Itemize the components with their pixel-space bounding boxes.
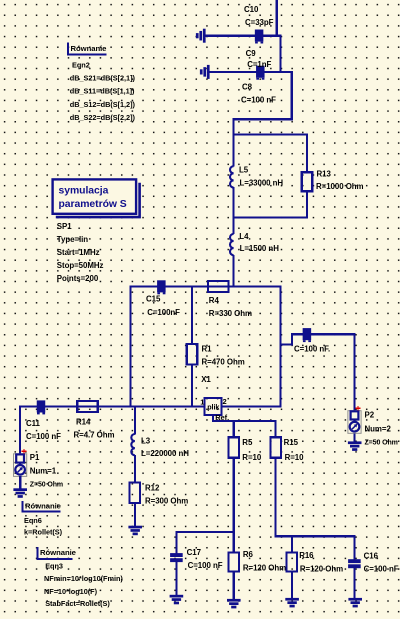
ground C16 <box>348 598 362 608</box>
wire R16 lower <box>291 571 293 599</box>
svg-text:C9: C9 <box>246 49 257 58</box>
resistor R15 <box>270 437 281 457</box>
wire P2 ground stem <box>354 433 356 442</box>
svg-text:C8: C8 <box>242 83 253 92</box>
ground (rotated left) at C10 <box>196 29 206 43</box>
wire tank left lower <box>233 187 235 218</box>
svg-text:L5: L5 <box>239 165 249 174</box>
wire junction horizontal right <box>275 535 356 537</box>
wire top rail <box>129 285 281 287</box>
svg-text:Points=200: Points=200 <box>57 274 99 283</box>
resistor R12 <box>130 483 141 503</box>
svg-text:C=100 nF: C=100 nF <box>26 432 61 441</box>
svg-text:C16: C16 <box>364 551 379 560</box>
wire collector vertical <box>280 285 282 407</box>
svg-text:C17: C17 <box>187 548 202 557</box>
wire C17 branch vertical <box>175 531 177 554</box>
svg-text:L=220000 nH: L=220000 nH <box>141 449 189 458</box>
inductor L3 <box>131 434 135 455</box>
subcircuit X1 SPfile box <box>205 398 222 415</box>
ground P2 <box>348 441 362 451</box>
svg-text:P2: P2 <box>365 411 375 420</box>
svg-text:R=120 Ohm: R=120 Ohm <box>300 564 343 573</box>
capacitor C10 <box>255 30 264 44</box>
equation Eqn3 bracket <box>37 547 72 559</box>
svg-text:L=1500 nH: L=1500 nH <box>240 244 280 253</box>
plus mark P2 <box>356 406 361 411</box>
ground R16 <box>285 598 299 608</box>
ground R12 <box>128 526 142 536</box>
svg-text:k=Rollet(S): k=Rollet(S) <box>24 527 63 536</box>
wire C16 upper <box>353 535 355 560</box>
svg-text:dB_S12=dB(S[1,2]): dB_S12=dB(S[1,2]) <box>70 100 136 109</box>
svg-text:2: 2 <box>223 397 227 406</box>
svg-text:StabFact=Rollet(S): StabFact=Rollet(S) <box>45 599 110 608</box>
svg-text:L3: L3 <box>141 437 151 446</box>
svg-text:R14: R14 <box>76 418 91 427</box>
wire C10 horizontal <box>205 35 282 37</box>
wire R12 lower <box>134 503 136 527</box>
svg-text:NFmin=10*log10(Fmin): NFmin=10*log10(Fmin) <box>44 574 123 583</box>
wire R1 lower <box>191 364 193 408</box>
svg-text:dB_S22=dB(S[2,2]): dB_S22=dB(S[2,2]) <box>70 113 136 122</box>
plus mark P1 <box>22 449 27 454</box>
svg-text:dB_S21=dB(S[2,1]): dB_S21=dB(S[2,1]) <box>70 74 136 83</box>
svg-text:L4: L4 <box>239 232 249 241</box>
wire R6 lower <box>233 571 235 600</box>
svg-text:Num=1: Num=1 <box>30 466 57 475</box>
svg-text:Równanie: Równanie <box>25 502 62 511</box>
wire vertical down right <box>291 71 293 121</box>
wire to P2 <box>353 333 355 411</box>
svg-text:SP1: SP1 <box>57 222 72 231</box>
wire tank left upper <box>233 133 235 166</box>
svg-text:Eqn3: Eqn3 <box>45 561 63 570</box>
wire emitter rail <box>212 420 277 422</box>
resistor R4 <box>208 281 229 292</box>
svg-text:Type=lin: Type=lin <box>57 235 88 244</box>
ground C17 <box>170 595 184 605</box>
svg-text:Równanie: Równanie <box>71 44 108 53</box>
wire L3-R12 <box>134 455 136 483</box>
wire tank right upper <box>306 133 308 172</box>
wire tank right lower <box>306 191 308 218</box>
wire C17 lower <box>175 561 177 596</box>
svg-text:C=100 nF: C=100 nF <box>364 564 399 573</box>
wire pin2 to collector <box>222 406 282 408</box>
resistor R1 <box>187 344 198 364</box>
wire R1 upper <box>191 285 193 344</box>
svg-text:C10: C10 <box>244 5 259 14</box>
svg-text:NF=10*log10(F): NF=10*log10(F) <box>44 587 98 596</box>
svg-text:parametrów S: parametrów S <box>59 199 127 210</box>
resistor R5 <box>228 437 239 457</box>
svg-text:Eqn2: Eqn2 <box>72 61 90 70</box>
resistor R16 <box>287 553 298 572</box>
svg-text:R=470 Ohm: R=470 Ohm <box>202 358 245 367</box>
equation Eqn2 bracket <box>68 43 106 55</box>
wire R5 branch upper <box>233 420 235 438</box>
wire jog to tank <box>233 118 235 136</box>
svg-text:R5: R5 <box>242 438 253 447</box>
svg-text:1: 1 <box>200 397 204 406</box>
svg-text:R=300 Ohm: R=300 Ohm <box>145 497 188 506</box>
wire output stub <box>280 343 294 345</box>
wire output jog <box>291 333 293 345</box>
svg-text:X1: X1 <box>201 375 211 384</box>
simulation box <box>53 179 137 213</box>
wire output horizontal <box>291 333 356 335</box>
resistor R6 <box>228 553 239 572</box>
wire R16 branch <box>291 535 293 553</box>
wire tank top <box>233 133 309 135</box>
svg-text:P1: P1 <box>30 453 40 462</box>
wire Ref stem <box>212 415 214 422</box>
svg-text:R13: R13 <box>317 170 332 179</box>
svg-text:R=120 Ohm: R=120 Ohm <box>243 564 286 573</box>
svg-text:R12: R12 <box>145 484 160 493</box>
port P1 <box>14 454 27 477</box>
wire C16 lower <box>353 567 355 599</box>
svg-text:Num=2: Num=2 <box>365 424 392 433</box>
svg-text:Z=50 Ohm: Z=50 Ohm <box>30 482 63 489</box>
wire C9 horizontal <box>209 71 293 73</box>
wire L4 upper <box>233 216 235 234</box>
wire L4 lower <box>233 255 235 288</box>
svg-text:C11: C11 <box>26 419 41 428</box>
svg-text:R1: R1 <box>202 345 213 354</box>
svg-text:R4: R4 <box>209 296 220 305</box>
wire P1 vertical <box>19 406 21 455</box>
ground (rotated left) at C9 <box>200 65 210 79</box>
svg-text:R=10: R=10 <box>242 453 262 462</box>
wire tank bottom <box>233 216 309 218</box>
svg-text:C=100 nF: C=100 nF <box>188 561 223 570</box>
wire L3 upper <box>134 406 136 435</box>
svg-text:plik: plik <box>207 402 219 411</box>
wire R5 to junction <box>233 457 235 552</box>
svg-text:R=330 Ohm: R=330 Ohm <box>209 309 252 318</box>
port P2 <box>348 411 361 434</box>
ground R6 <box>227 599 241 609</box>
svg-text:R=4.7 Ohm: R=4.7 Ohm <box>74 431 115 440</box>
wire jog horizontal <box>233 118 293 120</box>
svg-text:R6: R6 <box>243 550 254 559</box>
wire vertical C10-C9 node <box>279 35 281 73</box>
wire P1 ground stem <box>19 476 21 489</box>
inductor L5 <box>230 166 234 187</box>
resistor R14 <box>77 401 98 412</box>
svg-text:C=100 nF.: C=100 nF. <box>294 345 330 354</box>
capacitor C output <box>303 328 312 342</box>
svg-text:dB_S11=dB(S[1,1]): dB_S11=dB(S[1,1]) <box>70 87 135 96</box>
wire left bias vertical <box>129 285 131 407</box>
svg-text:Eqn6: Eqn6 <box>24 516 42 525</box>
svg-text:R=1000 Ohm: R=1000 Ohm <box>316 182 364 191</box>
svg-text:R=10: R=10 <box>285 453 305 462</box>
svg-text:R16: R16 <box>299 551 314 560</box>
svg-text:C=1nF: C=1nF <box>247 60 271 69</box>
resistor R13 <box>302 172 313 191</box>
equation Eqn6 bracket <box>23 501 61 512</box>
capacitor C11 <box>37 400 46 414</box>
capacitor C9 <box>256 66 265 80</box>
wire R15 branch upper <box>275 420 277 438</box>
wire R15 to junction <box>275 457 277 537</box>
svg-text:Z=50 Ohm: Z=50 Ohm <box>365 439 398 446</box>
svg-text:Start=1MHz: Start=1MHz <box>57 248 100 257</box>
svg-text:R15: R15 <box>284 438 299 447</box>
svg-text:symulacja: symulacja <box>59 186 109 197</box>
capacitor C15 <box>157 280 166 294</box>
svg-text:L=33000 nH: L=33000 nH <box>240 178 284 187</box>
capacitor C17 <box>170 553 183 562</box>
simulation box shadow <box>56 183 140 217</box>
svg-text:Stop=50MHz: Stop=50MHz <box>57 261 104 270</box>
svg-text:C=100 nF: C=100 nF <box>241 96 276 105</box>
wire C17 branch horizontal <box>175 531 235 533</box>
svg-text:C=100nF: C=100nF <box>147 308 180 317</box>
wire from top edge <box>276 0 278 37</box>
capacitor C16 <box>348 559 361 568</box>
wire main input rail <box>19 406 205 408</box>
svg-text:C15: C15 <box>146 295 161 304</box>
ground P1 <box>13 488 27 498</box>
svg-text:C=33pF: C=33pF <box>245 18 274 27</box>
inductor L4 <box>230 234 234 255</box>
svg-text:Równanie: Równanie <box>40 548 77 557</box>
